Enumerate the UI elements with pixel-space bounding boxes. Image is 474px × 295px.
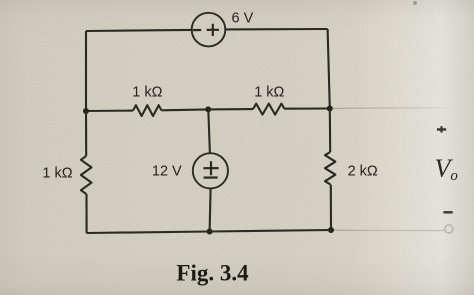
wire: 12V source bottom to node D xyxy=(210,188,211,231)
terminal: output negative (open circle) xyxy=(445,225,453,233)
svg-text:6 V: 6 V xyxy=(232,10,254,26)
node B (center middle junction) xyxy=(205,106,211,112)
node E (bottom right junction) xyxy=(328,227,334,233)
wire: node B down to 12V source top xyxy=(208,109,210,153)
voltage source V1 6V xyxy=(192,13,226,47)
label - (output polarity negative) xyxy=(443,211,452,213)
resistor R4 2 kOhm (right vertical) xyxy=(325,152,335,185)
voltage source V2 12V xyxy=(193,153,228,188)
wire: R3 right lead to node C xyxy=(285,107,330,109)
wire: R1 bottom lead to bottom-left corner xyxy=(85,194,87,233)
wire: bottom rail right segment (node D to node E) xyxy=(210,230,331,232)
speck (scan artifact top-right) xyxy=(413,1,417,5)
wire: node B to R3 left lead xyxy=(208,108,253,110)
wire: node C down to R4 top lead xyxy=(329,109,332,153)
wire: faint lead from node E to output minus terminal xyxy=(334,229,444,231)
wire: node A to R2 left lead xyxy=(86,110,133,113)
wire: top rail left segment (top-left corner to 6V source) xyxy=(86,30,192,31)
node C (right middle junction) xyxy=(327,106,333,112)
label + (output polarity positive) xyxy=(437,126,446,132)
svg-text:12 V: 12 V xyxy=(152,163,182,179)
svg-text:1 kΩ: 1 kΩ xyxy=(132,85,162,101)
wire: R4 bottom lead to node E xyxy=(330,185,332,231)
wire: R2 right lead to node B xyxy=(162,108,209,111)
svg-text:2 kΩ: 2 kΩ xyxy=(348,164,378,180)
resistor R3 1 kOhm (right horizontal) xyxy=(253,104,284,115)
wire: right rail upper (top-right corner down to node C) xyxy=(328,29,330,109)
wire: left rail upper (top-left corner down to node A) xyxy=(85,31,87,111)
svg-text:1 kΩ: 1 kΩ xyxy=(42,165,72,181)
wire: top rail right segment (6V source to top-right corner) xyxy=(225,28,327,30)
svg-text:1 kΩ: 1 kΩ xyxy=(254,85,284,101)
wire: node A down to R1 top lead xyxy=(85,111,87,156)
node A (left middle junction) xyxy=(83,108,89,114)
wire: faint lead from node C to output plus terminal xyxy=(333,107,452,110)
resistor R1 1 kOhm (left vertical) xyxy=(81,156,92,194)
wire: bottom rail left segment (bottom-left corner to node D) xyxy=(87,232,210,234)
svg-text:Fig. 3.4: Fig. 3.4 xyxy=(176,261,249,286)
resistor R2 1 kOhm (left horizontal) xyxy=(133,105,161,116)
node D (bottom center junction) xyxy=(207,229,213,235)
